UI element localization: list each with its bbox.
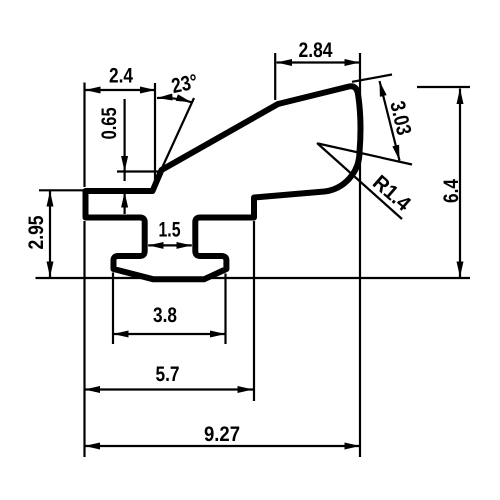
dimension 9.27 line (85, 445, 361, 447)
dimension 2.4 line (85, 89, 156, 91)
svg-text:2.95: 2.95 (25, 215, 48, 249)
dimension 5.7 line (85, 388, 254, 390)
wire extension line foot left vertical (112, 273, 114, 345)
dimension 23 degree label (170, 70, 200, 98)
dimension 6.4 line (459, 89, 461, 278)
wire 3.03 top extension line (352, 75, 392, 82)
wire extension line lip root vertical (154, 83, 156, 187)
svg-text:6.4: 6.4 (440, 179, 463, 203)
dimension 3.8 line (113, 333, 226, 335)
dimension 2.95 label (25, 215, 48, 249)
wire extension line 2.95 top horizontal (39, 189, 83, 191)
svg-text:5.7: 5.7 (156, 363, 180, 386)
wire extension line left profile edge vertical lower (83, 221, 85, 457)
wire baseline datum line (36, 277, 471, 279)
dimension 23 degree arc (157, 98, 192, 102)
wire 3.03 bottom extension line (318, 144, 412, 165)
dimension 3.03 label (385, 99, 415, 137)
wire extension line 6.4 top horizontal (417, 86, 470, 88)
svg-text:1.5: 1.5 (159, 219, 181, 242)
wire R1.4 radius leader line (317, 143, 402, 219)
dimension R1.4 label (368, 171, 415, 216)
dimension 2.95 line (49, 191, 51, 277)
svg-text:2.4: 2.4 (109, 65, 133, 88)
svg-text:9.27: 9.27 (204, 423, 240, 446)
dimension 0.65 arrow overshoot tick (123, 172, 125, 182)
wire extension line 0.65 horizontal at lip kink (117, 170, 159, 172)
dimension 2.84 line (277, 61, 361, 63)
svg-text:3.8: 3.8 (153, 304, 177, 327)
wire 23 degree slanted extension line (162, 98, 194, 168)
dimension 0.65 label (98, 107, 121, 139)
dimension 6.4 label (440, 179, 463, 203)
dimension 3.03 line (380, 81, 400, 161)
wire extension line step right vertical (253, 221, 255, 401)
dimension 1.5 line (148, 244, 192, 246)
dimension 0.65 lower arrow (123, 192, 125, 214)
dimension 0.65 upper arrow (123, 99, 125, 172)
wire extension line foot right vertical (224, 274, 226, 345)
wire extension line right profile edge vertical (359, 53, 361, 457)
svg-text:0.65: 0.65 (98, 107, 121, 139)
wire extension line top kink vertical (274, 53, 276, 100)
seal profile outline (86, 86, 361, 279)
svg-text:2.84: 2.84 (299, 39, 333, 62)
wire extension line left profile edge vertical upper (83, 83, 85, 188)
